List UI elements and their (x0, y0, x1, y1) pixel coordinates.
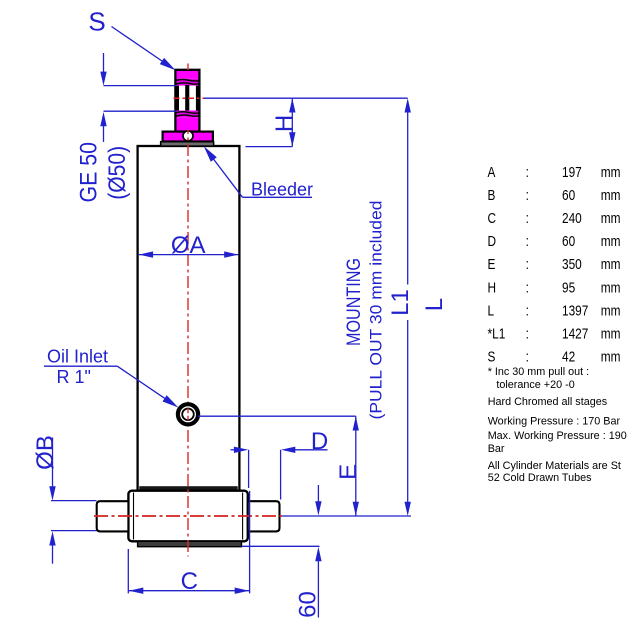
svg-text:350: 350 (562, 256, 582, 273)
svg-text:tolerance +20 -0: tolerance +20 -0 (496, 379, 574, 391)
base block chamfer line right (242, 493, 244, 540)
svg-text:mm: mm (601, 210, 621, 227)
svg-text::: : (526, 348, 529, 365)
flange gray strip (161, 142, 214, 147)
svg-text:H: H (271, 115, 298, 132)
svg-text:S: S (488, 348, 496, 365)
svg-text:Oil Inlet: Oil Inlet (47, 347, 108, 367)
svg-text::: : (526, 233, 529, 250)
tube end weld band (139, 486, 237, 490)
svg-text::: : (526, 164, 529, 181)
svg-text:mm: mm (601, 164, 621, 181)
ØB dimension line upper (52, 438, 54, 488)
svg-text:mm: mm (601, 302, 621, 319)
svg-text:A: A (488, 164, 496, 181)
svg-text:MOUNTING: MOUNTING (344, 258, 365, 346)
svg-text:D: D (488, 233, 497, 250)
svg-text:mm: mm (601, 187, 621, 204)
eye center extension line to right (204, 97, 408, 99)
svg-text::: : (526, 256, 529, 273)
vertical centerline (187, 64, 189, 71)
oil inlet port (178, 404, 198, 424)
rod end upper bearing band (175, 78, 199, 86)
base block (128, 491, 247, 542)
svg-text:(Ø50): (Ø50) (104, 146, 131, 200)
svg-text:ØB: ØB (32, 435, 59, 470)
D dimension line (231, 449, 238, 451)
svg-text::: : (526, 187, 529, 204)
svg-text:60: 60 (562, 233, 575, 250)
Oil Inlet leader line (117, 366, 170, 402)
svg-text:Max. Working Pressure : 190: Max. Working Pressure : 190 (488, 430, 627, 442)
rod end cap (magenta) (175, 70, 199, 78)
E dimension line (355, 416, 357, 516)
notes (488, 366, 627, 484)
svg-text:60: 60 (295, 591, 322, 618)
svg-text::: : (526, 210, 529, 227)
C dimension line (129, 590, 249, 592)
eye horizontal centerline (174, 97, 205, 99)
svg-text:(PULL OUT 30 mm included: (PULL OUT 30 mm included (367, 201, 385, 420)
svg-text:S: S (88, 7, 105, 37)
cylinder body tube (138, 146, 240, 491)
GE50 extension lines (104, 85, 177, 87)
svg-text:1427: 1427 (562, 325, 588, 342)
svg-text:GE 50: GE 50 (76, 142, 103, 203)
base block chamfer line left (133, 493, 135, 540)
D extension line block edge (248, 450, 250, 488)
GE50 dimension line lower (103, 125, 105, 142)
60 dimension line lower (317, 560, 319, 618)
C extension line left (127, 549, 129, 593)
svg-text:B: B (488, 187, 496, 204)
svg-text:42: 42 (562, 348, 575, 365)
svg-text:L: L (488, 302, 495, 319)
svg-text:D: D (311, 428, 328, 455)
H dimension line (291, 98, 293, 146)
svg-text:mm: mm (601, 279, 621, 296)
svg-text:L: L (421, 298, 448, 311)
60 extension line (block bottom) (242, 545, 320, 547)
rod end eye slots (179, 86, 196, 111)
svg-text:60: 60 (562, 187, 575, 204)
svg-text:*L1: *L1 (488, 325, 506, 342)
svg-text:mm: mm (601, 256, 621, 273)
left trunnion pin (97, 501, 129, 531)
cylinder top extension line (246, 146, 293, 148)
svg-text:95: 95 (562, 279, 575, 296)
svg-text:1397: 1397 (562, 302, 588, 319)
svg-text:C: C (181, 568, 198, 595)
bleeder valve (183, 131, 193, 141)
svg-text:197: 197 (562, 164, 582, 181)
pin axis centerline (94, 515, 282, 517)
svg-text:240: 240 (562, 210, 582, 227)
D extension line pin end (280, 450, 282, 500)
C extension line right (249, 491, 251, 594)
ØB extension lines (51, 500, 97, 502)
svg-text:* Inc 30 mm pull out :: * Inc 30 mm pull out : (488, 366, 589, 378)
60 dimension line upper (317, 485, 319, 502)
base bottom lip (138, 541, 242, 546)
oil inlet extension line (198, 415, 356, 417)
svg-text:52 Cold Drawn Tubes: 52 Cold Drawn Tubes (488, 472, 592, 484)
svg-text:Bar: Bar (488, 443, 505, 455)
svg-text:All Cylinder Materials are St: All Cylinder Materials are St (488, 460, 621, 472)
L1/L dimension line (407, 111, 409, 285)
svg-text:mm: mm (601, 325, 621, 342)
S leader line (112, 27, 171, 67)
svg-text:Bleeder: Bleeder (251, 180, 313, 200)
ØB dimension line lower (52, 545, 54, 564)
pin axis extension to L line (282, 515, 411, 517)
svg-text:R 1": R 1" (57, 367, 91, 387)
svg-text:E: E (335, 464, 362, 480)
svg-text:H: H (488, 279, 497, 296)
GE50 dimension line upper (103, 53, 105, 73)
svg-text::: : (526, 279, 529, 296)
svg-text:E: E (488, 256, 496, 273)
rod end lower bearing band (175, 111, 199, 118)
Bleeder leader line (211, 155, 243, 197)
svg-text:mm: mm (601, 233, 621, 250)
svg-text:Hard Chromed all stages: Hard Chromed all stages (488, 396, 608, 408)
svg-text::: : (526, 325, 529, 342)
svg-text:ØA: ØA (171, 232, 206, 259)
spec table (488, 164, 621, 365)
right trunnion pin (248, 501, 280, 531)
svg-text:C: C (488, 210, 497, 227)
rod flange (magenta) (163, 132, 213, 142)
svg-text:Working Pressure : 170 Bar: Working Pressure : 170 Bar (488, 416, 621, 428)
rod end outer column outline (175, 70, 199, 132)
svg-text::: : (526, 302, 529, 319)
svg-text:L1: L1 (387, 289, 414, 316)
rod end lower column (magenta) (175, 118, 199, 132)
svg-text:mm: mm (601, 348, 621, 365)
ØA dimension line (139, 254, 239, 256)
